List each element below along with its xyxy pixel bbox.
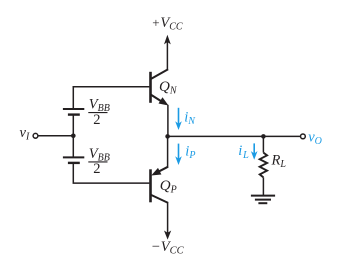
label +VCC <box>152 15 183 33</box>
terminal vO <box>301 134 306 139</box>
svg-text:iP: iP <box>185 144 195 162</box>
wire vI to junction <box>38 135 73 137</box>
svg-text:QN: QN <box>159 79 178 97</box>
wire node to QP emitter <box>167 136 169 167</box>
terminal vI <box>33 133 38 138</box>
node junction vI <box>71 134 76 139</box>
wire left bus top <box>72 86 74 109</box>
svg-text:vI: vI <box>20 125 30 143</box>
battery B2 VBB/2 bottom <box>63 157 84 163</box>
supply arrow -VCC <box>164 203 171 240</box>
ground <box>251 196 275 204</box>
svg-text:2: 2 <box>93 161 100 177</box>
wire battery middle <box>72 115 74 158</box>
battery B1 VBB/2 top <box>63 109 84 115</box>
svg-text:+VCC: +VCC <box>152 15 183 33</box>
node output <box>165 134 170 139</box>
label VBB/2 top <box>88 96 110 127</box>
svg-text:2: 2 <box>93 112 100 128</box>
svg-text:vO: vO <box>308 129 322 147</box>
node RL branch <box>261 134 266 139</box>
wire left bus bottom <box>73 163 149 183</box>
wire QN emitter to node <box>167 105 169 137</box>
wire output <box>168 135 301 137</box>
resistor RL <box>260 136 267 195</box>
label VBB/2 bottom <box>88 146 110 177</box>
svg-text:RL: RL <box>271 153 287 171</box>
wire base QN horizontal <box>73 86 150 88</box>
label -VCC <box>152 239 185 257</box>
transistor QP <box>149 167 168 203</box>
current arrow iP <box>175 144 182 165</box>
current arrow iL <box>251 143 258 159</box>
svg-text:QP: QP <box>160 178 177 196</box>
label QP <box>160 178 177 196</box>
svg-text:−VCC: −VCC <box>152 239 185 257</box>
transistor QN <box>149 69 168 105</box>
supply arrow +VCC <box>164 35 171 70</box>
svg-text:iL: iL <box>238 143 249 161</box>
label QN <box>159 79 178 97</box>
svg-text:iN: iN <box>184 110 196 128</box>
current arrow iN <box>175 108 182 130</box>
